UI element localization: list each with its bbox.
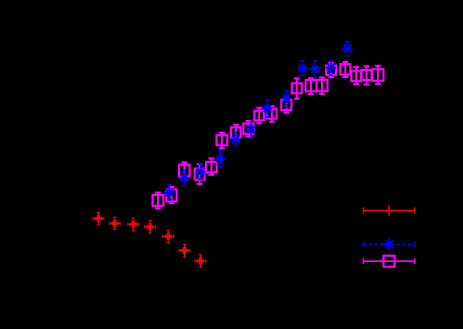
blue point 9 [297, 61, 307, 75]
magenta box 13 [306, 78, 317, 94]
magenta box 1 [153, 193, 164, 209]
red point 4 [145, 221, 156, 233]
magenta box 19 [372, 66, 383, 84]
magenta box 3 [179, 162, 190, 179]
blue point 4 [215, 150, 225, 166]
blue point 3 [196, 164, 206, 179]
magenta box 11 [281, 97, 291, 112]
blue point 11 [342, 42, 352, 56]
magenta box 5 [206, 158, 217, 175]
magenta box 14 [317, 78, 328, 95]
red point 7 [195, 255, 206, 267]
blue point 8 [281, 91, 291, 108]
magenta box 9 [254, 108, 264, 124]
blue point 12 [326, 61, 336, 75]
blue point 7 [262, 101, 272, 117]
red point 2 [109, 217, 120, 229]
blue point 2 [179, 171, 189, 186]
magenta box 6 [217, 133, 228, 149]
blue point 6 [246, 122, 256, 138]
red point 6 [179, 244, 190, 256]
magenta box 10 [267, 106, 277, 122]
magenta box 8 [243, 121, 253, 137]
magenta box 12 [292, 78, 302, 98]
red point 3 [128, 218, 139, 230]
magenta box 16 [340, 62, 350, 77]
magenta box 4 [195, 164, 205, 184]
blue point 5 [230, 133, 240, 146]
legend red errorbar sample [363, 205, 414, 216]
blue point 10 [310, 61, 320, 77]
magenta box 15 [326, 63, 336, 78]
magenta box 7 [231, 125, 241, 141]
legend blue dashed asterisk sample [363, 239, 414, 250]
blue point 1 [164, 185, 174, 200]
magenta box 18 [362, 66, 372, 85]
red point 1 [93, 212, 104, 224]
legend magenta box sample [363, 256, 414, 267]
magenta box 17 [351, 67, 361, 84]
red point 5 [163, 230, 174, 242]
magenta box 2 [166, 187, 176, 203]
